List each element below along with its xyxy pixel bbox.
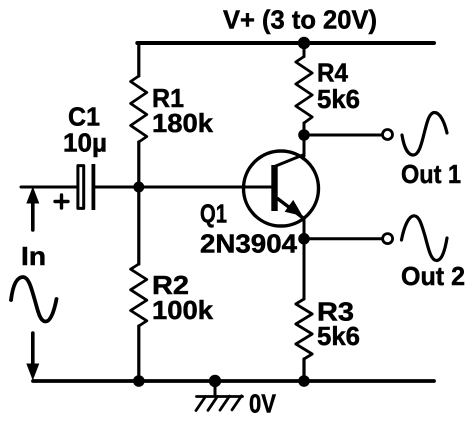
svg-text:Q1: Q1 <box>200 199 227 229</box>
svg-text:Out 2: Out 2 <box>401 261 465 291</box>
svg-text:5k6: 5k6 <box>317 321 360 351</box>
svg-text:2N3904: 2N3904 <box>200 229 298 259</box>
svg-text:R4: R4 <box>317 58 348 88</box>
svg-text:100k: 100k <box>152 295 214 325</box>
svg-text:10µ: 10µ <box>63 128 107 158</box>
svg-text:V+ (3 to 20V): V+ (3 to 20V) <box>223 5 377 35</box>
svg-text:0V: 0V <box>249 389 277 419</box>
svg-text:In: In <box>21 241 46 271</box>
svg-text:180k: 180k <box>152 108 214 138</box>
svg-text:5k6: 5k6 <box>317 84 360 114</box>
svg-text:Out 1: Out 1 <box>401 159 461 189</box>
